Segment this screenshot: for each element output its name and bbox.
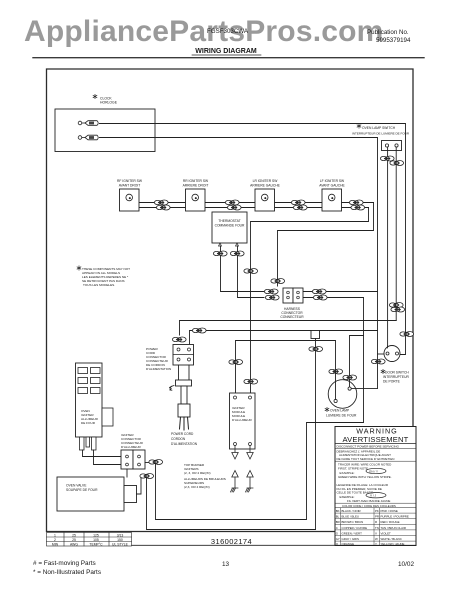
svg-text:OVEN LAMP SWITCH: OVEN LAMP SWITCH — [362, 126, 396, 130]
top burner igniters label — [184, 463, 226, 489]
svg-text:OVEN VALVE: OVEN VALVE — [66, 484, 87, 488]
connector on lamp switch right wire — [390, 161, 404, 166]
svg-text:GREEN WIRE WITH YELLOW STR: GREEN WIRE WITH YELLOW STRIPE. — [338, 475, 392, 479]
connector door switch — [371, 359, 385, 364]
svg-text:DISCONNECT POWER BEFORE SER: DISCONNECT POWER BEFORE SERVICING — [337, 444, 400, 448]
svg-text:AppliancePartsPros.com: AppliancePartsPros.com — [24, 15, 384, 48]
connector gap3 lower — [293, 205, 307, 210]
svg-text:V / J: V / J — [370, 494, 377, 498]
svg-text:10/02: 10/02 — [398, 561, 414, 568]
svg-text:CORDON: CORDON — [171, 437, 186, 441]
svg-text:AVERTISSEMENT: AVERTISSEMENT — [342, 435, 408, 444]
connector pair left of harness upper — [264, 289, 278, 294]
burner electrode right — [246, 471, 254, 493]
svg-text:ARRIERE DROIT: ARRIERE DROIT — [183, 184, 209, 188]
svg-text:PINK / ROSE: PINK / ROSE — [381, 509, 398, 513]
RF igniter switch — [120, 189, 140, 211]
svg-text:5995379194: 5995379194 — [376, 37, 411, 44]
thermostat pin 1 — [219, 243, 222, 246]
svg-text:AWG: AWG — [70, 542, 78, 546]
svg-text:13: 13 — [222, 561, 230, 568]
svg-text:POWER CORD: POWER CORD — [171, 432, 194, 436]
svg-text:DE FOUR: DE FOUR — [81, 421, 96, 425]
connector thermostat right — [230, 251, 244, 256]
wire branch to lamp right — [350, 336, 364, 388]
oven igniter — [76, 363, 114, 437]
svg-text:BLUE / BLEU: BLUE / BLEU — [342, 515, 360, 519]
svg-text:VIOLET: VIOLET — [381, 531, 392, 535]
door switch label — [381, 369, 385, 373]
connector on power bus — [192, 328, 206, 333]
svg-text:# = Fast-moving Parts: # = Fast-moving Parts — [33, 560, 96, 567]
svg-text:INTERRUPTEUR: INTERRUPTEUR — [383, 375, 409, 379]
svg-text:DE FAIRE TOUT SERVICE D' E: DE FAIRE TOUT SERVICE D' ENTRETIEN — [337, 457, 395, 461]
connector after LF upper — [349, 200, 363, 205]
svg-text:(2, 3, OR 4 REQ'D): (2, 3, OR 4 REQ'D) — [184, 471, 211, 475]
wire clock line 1 to right side — [99, 124, 406, 355]
LR igniter switch — [255, 189, 275, 211]
path A: LF bottom wire loop to middle vertical — [251, 208, 369, 398]
LF igniter switch — [322, 189, 342, 211]
bottom rule under part number — [132, 544, 417, 546]
svg-text:2: 2 — [54, 538, 56, 542]
svg-text:(2,3, OR 4 REQ'D): (2,3, OR 4 REQ'D) — [184, 485, 210, 489]
connector gap2 lower — [227, 205, 241, 210]
svg-text:BK: BK — [336, 509, 340, 513]
power cord assembly — [176, 365, 192, 430]
svg-text:DOOR SWITCH: DOOR SWITCH — [385, 371, 409, 375]
svg-text:COPPER / CUIVRE: COPPER / CUIVRE — [342, 526, 368, 530]
svg-text:GRAY / GRIS: GRAY / GRIS — [342, 537, 359, 541]
clock terminal 2 — [78, 135, 155, 140]
connector pair on lamp switch right wire — [389, 303, 403, 308]
svg-text:AVANT GAUCHE: AVANT GAUCHE — [319, 184, 345, 188]
connector right of igniter connector — [149, 460, 163, 465]
connector on module right wire — [244, 379, 258, 384]
svg-text:DE PORTE: DE PORTE — [383, 380, 401, 384]
svg-text:UL STYLE: UL STYLE — [112, 542, 129, 546]
clock label — [93, 94, 97, 98]
svg-text:GY: GY — [336, 537, 340, 541]
page header rule — [33, 57, 424, 59]
connector pair right of harness lower — [313, 295, 327, 300]
svg-text:RR IGNITER SW: RR IGNITER SW — [183, 179, 209, 183]
clock terminal 1 — [78, 121, 155, 126]
svg-text:WHITE / BLANC: WHITE / BLANC — [381, 537, 402, 541]
connector gap1 upper — [154, 200, 168, 205]
wire thermostat right to harness — [238, 246, 265, 298]
svg-text:Publication No.: Publication No. — [367, 29, 409, 36]
svg-text:BL: BL — [336, 515, 340, 519]
svg-text:HORLOGE: HORLOGE — [100, 101, 118, 105]
junction box J1 — [311, 331, 320, 339]
svg-text:THERMOSTAT: THERMOSTAT — [218, 219, 240, 223]
svg-text:V: V — [375, 531, 377, 535]
svg-text:LF IGNITER SW: LF IGNITER SW — [320, 179, 345, 183]
wire lamp switch left down — [387, 147, 389, 347]
svg-text:W: W — [375, 537, 378, 541]
svg-text:RED / ROUGE: RED / ROUGE — [381, 520, 400, 524]
wire igniter connector down to valve — [126, 469, 128, 477]
oven lamp switch label — [357, 124, 361, 128]
connector pair right of harness upper — [312, 289, 326, 294]
svg-text:SOUPAPE DE FOUR: SOUPAPE DE FOUR — [66, 488, 98, 492]
warning box — [335, 427, 416, 546]
connector below junction — [309, 347, 323, 352]
spark module — [230, 393, 256, 449]
svg-text:C: C — [336, 526, 338, 530]
svg-text:PURPLE / POURPRE: PURPLE / POURPRE — [381, 515, 409, 519]
connector on clock wire 1 — [400, 332, 414, 337]
connector above oven lamp right — [343, 375, 357, 380]
svg-text:CONNECTEUR: CONNECTEUR — [280, 315, 304, 319]
svg-text:CELLE DE TOUTE BANDE.: CELLE DE TOUTE BANDE. — [337, 491, 375, 495]
wire igniter to connector top — [83, 450, 122, 457]
oven lamp label — [325, 407, 329, 411]
connector above power cord connector — [172, 337, 186, 342]
svg-text:D'ALLUMEUR: D'ALLUMEUR — [232, 418, 252, 422]
svg-text:RF IGNITER SW: RF IGNITER SW — [117, 179, 143, 183]
oven valve — [57, 477, 137, 511]
wire thermostat left to harness — [221, 246, 265, 292]
ground symbol at power cord — [170, 386, 175, 391]
wire power branch y320 — [180, 321, 397, 336]
power cord connector label — [146, 347, 171, 371]
connector above oven lamp left — [329, 369, 343, 374]
svg-text:D'ALIMENTATION: D'ALIMENTATION — [146, 367, 171, 371]
svg-text:R: R — [375, 520, 377, 524]
svg-text:FGSF303CWA: FGSF303CWA — [207, 28, 249, 35]
svg-text:105: 105 — [93, 538, 99, 542]
svg-text:* = Non-Illustrated Parts: * = Non-Illustrated Parts — [33, 569, 101, 576]
note: components may not appear — [77, 266, 130, 287]
svg-text:D'ALLUMEUR: D'ALLUMEUR — [121, 445, 141, 449]
svg-text:OVEN LAMP: OVEN LAMP — [330, 409, 350, 413]
connector gap1 lower — [156, 205, 170, 210]
oven lamp terminals — [334, 399, 337, 402]
svg-text:316002174: 316002174 — [211, 537, 252, 546]
spark output left arrow — [232, 446, 238, 460]
wire junction down to loops — [315, 339, 317, 530]
svg-text:PK: PK — [375, 509, 379, 513]
svg-text:FIL VERT AVEC BANDE JAUNE: FIL VERT AVEC BANDE JAUNE — [347, 499, 390, 503]
svg-text:LR IGNITER SW: LR IGNITER SW — [253, 179, 279, 183]
burner electrode left — [231, 471, 239, 493]
svg-text:COMMANDE FOUR: COMMANDE FOUR — [215, 224, 245, 228]
connector on lamp switch left wire — [380, 156, 394, 161]
igniter row bus wire lower — [139, 207, 369, 209]
svg-text:TOUS LES MODELES.: TOUS LES MODELES. — [83, 283, 115, 287]
door switch — [384, 346, 400, 362]
connector thermostat left — [213, 251, 227, 256]
svg-text:ARRIERE GAUCHE: ARRIERE GAUCHE — [250, 184, 280, 188]
svg-text:D'ALIMENTATION: D'ALIMENTATION — [171, 442, 198, 446]
wire y340: module left pin to lamp left terminal — [236, 341, 336, 400]
svg-text:125: 125 — [93, 533, 99, 537]
oven lamp switch S1 — [382, 141, 402, 151]
diagram frame — [47, 69, 414, 532]
connector on module left wire — [229, 360, 243, 365]
svg-text:150: 150 — [117, 538, 123, 542]
connector pair left of harness lower — [265, 295, 279, 300]
svg-text:AVANT DROIT: AVANT DROIT — [119, 184, 141, 188]
clock C1 — [55, 109, 155, 152]
svg-text:BLACK / NOIR: BLACK / NOIR — [342, 509, 361, 513]
oven igniter label — [81, 409, 99, 425]
svg-text:TAN / BRUN CLAIR: TAN / BRUN CLAIR — [381, 526, 406, 530]
wire spec table — [47, 533, 132, 547]
svg-text:COLOR CODE / CODE DES: COLOR CODE / CODE DES COULEURS — [342, 504, 396, 508]
svg-text:BROWN / BRUN: BROWN / BRUN — [342, 520, 364, 524]
svg-text:25: 25 — [72, 538, 76, 542]
connector gap2 upper — [225, 200, 239, 205]
connector on middle vertical — [244, 269, 258, 274]
svg-text:GN / Y: GN / Y — [369, 469, 378, 473]
svg-text:TN: TN — [375, 526, 379, 530]
svg-text:GREEN / VERT: GREEN / VERT — [342, 531, 363, 535]
igniter connector — [121, 450, 145, 469]
oven lamp — [328, 380, 357, 409]
oven igniter prongs — [80, 437, 97, 450]
svg-text:FIRST, STRIPE NOTE.: FIRST, STRIPE NOTE. — [338, 466, 369, 470]
wire lamp switch right down — [395, 147, 397, 321]
spark module label — [232, 406, 252, 422]
connector on path B above harness — [271, 279, 285, 284]
wire igniter to connector bottom — [94, 450, 122, 465]
connector gap3 upper — [291, 200, 305, 205]
svg-text:PR: PR — [375, 515, 379, 519]
igniter row bus wire upper — [139, 202, 374, 204]
connector after LF lower — [351, 205, 365, 210]
wires harness to lamp — [303, 291, 378, 293]
svg-text:1: 1 — [54, 533, 56, 537]
svg-text:25: 25 — [72, 533, 76, 537]
wire igniter connector to loop A — [145, 462, 156, 464]
svg-text:MIN: MIN — [52, 542, 59, 546]
wire branch to door left terminal — [378, 353, 387, 355]
harness connector — [283, 288, 303, 303]
svg-text:TEMP°C: TEMP°C — [89, 542, 103, 546]
igniter connector label — [121, 433, 144, 449]
oven thermostat — [212, 212, 247, 243]
svg-text:3/13: 3/13 — [117, 533, 124, 537]
RR igniter switch — [186, 189, 206, 211]
power cord label — [171, 432, 198, 446]
svg-text:WIRING DIAGRAM: WIRING DIAGRAM — [195, 48, 257, 55]
svg-text:INTERRUPTEUR DE LUMIERE DE: INTERRUPTEUR DE LUMIERE DE FOUR — [352, 132, 410, 136]
path B: LF top wire loop to harness — [278, 203, 374, 287]
warning color table — [335, 503, 416, 546]
svg-text:LUMIERE DE FOUR: LUMIERE DE FOUR — [326, 414, 357, 418]
svg-text:BR: BR — [336, 520, 340, 524]
wire valve to loop B — [137, 476, 144, 494]
power cord connector — [173, 345, 194, 366]
connector valve to loop — [140, 474, 154, 479]
wire loop B bottom — [147, 478, 316, 530]
wire clock line 2 to right side — [99, 138, 378, 360]
wire power bus y331 — [190, 331, 378, 346]
wire door connector down to lamp right terminal — [352, 363, 378, 389]
spark output right arrow — [247, 446, 253, 460]
thermostat pin 2 — [236, 243, 239, 246]
